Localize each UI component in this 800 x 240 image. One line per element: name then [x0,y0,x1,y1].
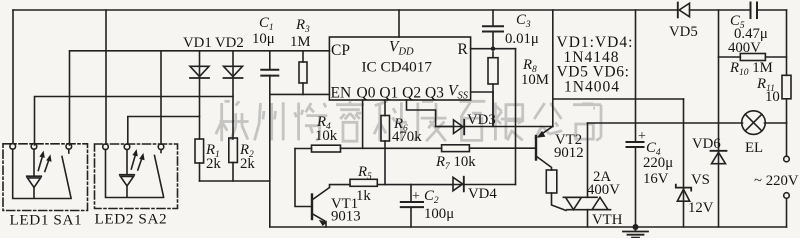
svg-text:VTH: VTH [592,212,623,228]
svg-text:470k: 470k [392,129,422,145]
svg-text:2k: 2k [206,156,221,172]
wire EN link [270,93,330,95]
wire LED2 middle link [128,117,200,145]
wire supply link [553,98,684,100]
wire VT1 base drop [295,149,312,207]
wire Q1 drop [384,100,386,116]
wire bottom rail [270,226,787,228]
wire Q0 drop [362,100,364,148]
resistor R4 [295,145,442,152]
resistor R11 [782,10,791,123]
resistor R1 [195,139,204,181]
diode VD2 [224,51,243,139]
switch SA1 [62,149,71,198]
svg-text:EN: EN [331,85,352,102]
svg-text:16V: 16V [643,171,669,187]
svg-text:1M: 1M [290,34,311,50]
svg-text:LED2 SA2: LED2 SA2 [95,211,168,228]
wire LED2 right drop [160,51,162,144]
wire text box divider [552,10,554,126]
wire R pin [471,47,516,51]
resistor R3 [299,51,307,95]
svg-text:VD5: VD5 [669,24,698,40]
resistor R2 [229,138,238,181]
LED1 terminals [10,144,72,150]
svg-text:9013: 9013 [331,209,361,225]
LED1 photodiode [13,149,71,198]
capacitor C1 [261,51,278,76]
svg-text:LED1 SA1: LED1 SA1 [10,212,83,229]
diode VD6 [711,10,727,227]
LED2 photodiode [106,150,164,198]
svg-text:VD6: VD6 [692,136,721,152]
LED2 arrows [131,149,144,170]
wire lamp link [588,122,787,124]
svg-text:VS: VS [691,172,710,188]
svg-text:0.01μ: 0.01μ [505,31,539,47]
IC U1 CD4017 box [329,37,470,100]
svg-text:EL: EL [745,140,763,156]
diode VD5 [678,3,690,18]
diode VD1 [190,51,209,139]
svg-text:VD4: VD4 [468,186,497,202]
svg-text:1N4004: 1N4004 [564,78,620,95]
svg-text:10: 10 [765,89,780,105]
terminal 220V bottom [784,193,790,227]
transistor VT2 [536,126,553,170]
wire VSS drop [492,92,494,126]
capacitor C2 [401,185,423,227]
resistor R10 [719,54,787,61]
svg-text:10k: 10k [315,128,338,144]
lamp EL [742,111,766,135]
svg-text:~ 220V: ~ 220V [754,173,799,189]
svg-text:9012: 9012 [554,145,584,161]
svg-text:100μ: 100μ [424,206,454,222]
svg-text:1k: 1k [356,188,371,204]
resistor R6 [381,116,390,185]
wire LED2 left drop [105,10,107,144]
wire mid rail [35,97,234,146]
svg-text:R10 1M: R10 1M [729,60,773,78]
svg-text:400V: 400V [587,182,620,198]
watermark [216,101,601,141]
svg-text:400V: 400V [728,40,761,56]
capacitor C5 [751,3,758,19]
wire left border [12,10,14,143]
triac VTH [563,123,610,227]
box LED2 SA2 [95,144,178,209]
LED2 terminals [103,144,164,150]
wire R net drop [515,49,517,185]
svg-text:R: R [458,41,469,58]
wire R1 R2 bottom link [200,180,270,182]
resistor R5 [350,179,453,186]
svg-text:+: + [412,189,420,204]
switch SA2 [155,150,164,197]
wire top supply rail [13,9,787,11]
resistor R8 [488,52,498,126]
resistor R7 [442,145,535,152]
capacitor C4 [627,10,644,227]
capacitor C3 [483,10,503,49]
svg-text:2k: 2k [240,156,255,172]
wire CP rail [70,51,330,145]
wire VSS [471,91,493,93]
diode VD3 [436,120,553,134]
resistor R9 [546,170,566,211]
svg-text:IC CD4017: IC CD4017 [362,59,433,76]
svg-text:12V: 12V [688,200,714,216]
svg-text:+: + [638,129,646,144]
LED1 arrows [38,151,51,172]
svg-text:VD1: VD1 [183,35,212,51]
ground [623,224,648,238]
zener VS [676,99,691,227]
terminal 220V top [784,123,790,162]
transistor VT1 [312,185,350,227]
svg-text:10M: 10M [521,72,549,88]
svg-text:CP: CP [331,42,350,59]
wire EN drop [269,75,271,227]
svg-text:10μ: 10μ [252,31,275,47]
svg-text:VD2: VD2 [215,35,244,51]
svg-text:VD3: VD3 [467,112,496,128]
box LED1 SA1 [3,144,88,211]
wire VDD drop [398,10,400,37]
diode VD4 [453,177,516,192]
svg-text:220μ: 220μ [643,155,673,171]
svg-text:R7 10k: R7 10k [435,154,476,172]
svg-text:Q0 Q1 Q2 Q3: Q0 Q1 Q2 Q3 [357,85,445,102]
wire Q2 elbow [407,100,454,127]
